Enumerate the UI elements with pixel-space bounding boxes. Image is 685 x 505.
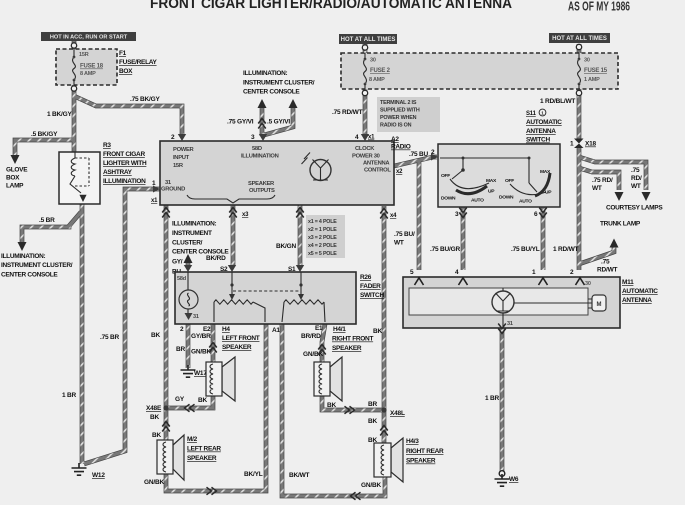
svg-text:.75 GY/VI: .75 GY/VI: [227, 119, 254, 126]
svg-text:OUTPUTS: OUTPUTS: [249, 188, 275, 194]
svg-text:58D: 58D: [252, 146, 262, 152]
svg-text:LEFT REAR: LEFT REAR: [187, 446, 221, 453]
svg-text:RD/: RD/: [631, 175, 642, 182]
svg-text:.75 RD/WT: .75 RD/WT: [332, 109, 363, 116]
svg-text:FUSE 18: FUSE 18: [80, 64, 104, 70]
svg-text:W6: W6: [509, 476, 519, 483]
svg-text:SPEAKER: SPEAKER: [187, 455, 217, 462]
svg-text:UP: UP: [545, 190, 552, 196]
svg-text:X48E: X48E: [146, 405, 162, 412]
svg-text:POWER 30: POWER 30: [352, 154, 380, 160]
svg-text:.75 BU/: .75 BU/: [394, 231, 415, 238]
svg-text:X18: X18: [585, 141, 597, 148]
svg-text:6: 6: [534, 211, 538, 218]
svg-text:BOX: BOX: [119, 68, 133, 75]
svg-text:1 BR: 1 BR: [62, 392, 77, 399]
svg-text:POWER WHEN: POWER WHEN: [380, 115, 417, 121]
svg-text:1 BK/GY: 1 BK/GY: [47, 111, 72, 118]
svg-text:BK/YL: BK/YL: [244, 471, 263, 478]
svg-text:CENTER CONSOLE: CENTER CONSOLE: [1, 272, 58, 279]
svg-text:LAMP: LAMP: [6, 183, 24, 190]
svg-text:1: 1: [152, 180, 156, 187]
svg-text:HOT AT ALL TIMES: HOT AT ALL TIMES: [552, 36, 607, 42]
svg-text:DOWN: DOWN: [499, 195, 514, 201]
svg-text:ASHTRAY: ASHTRAY: [103, 169, 133, 176]
svg-text:BK/RD: BK/RD: [206, 255, 226, 262]
svg-text:58d: 58d: [177, 276, 186, 282]
svg-text:.5 BK/GY: .5 BK/GY: [31, 131, 58, 138]
svg-text:30: 30: [585, 281, 591, 287]
svg-text:x3 = 2 POLE: x3 = 2 POLE: [308, 235, 337, 241]
svg-text:x2 = 1 POLE: x2 = 1 POLE: [308, 227, 337, 233]
svg-text:W17: W17: [194, 370, 207, 377]
svg-text:BK: BK: [368, 418, 377, 425]
svg-text:H4/3: H4/3: [406, 438, 419, 445]
svg-text:SPEAKER: SPEAKER: [222, 344, 252, 351]
svg-text:BK: BK: [198, 397, 207, 404]
svg-text:ILLUMINATION:: ILLUMINATION:: [172, 221, 216, 228]
svg-text:SPEAKER: SPEAKER: [332, 345, 362, 352]
svg-text:BR: BR: [176, 346, 185, 353]
svg-text:x1: x1: [151, 198, 158, 204]
svg-text:BK/GN: BK/GN: [276, 243, 296, 250]
svg-text:ANTENNA: ANTENNA: [526, 128, 556, 135]
svg-text:INSTRUMENT CLUSTER/: INSTRUMENT CLUSTER/: [243, 80, 315, 87]
svg-text:BR: BR: [368, 401, 377, 408]
svg-text:.5 GY/VI: .5 GY/VI: [267, 119, 290, 126]
svg-text:POWER: POWER: [173, 147, 195, 153]
svg-text:RADIO: RADIO: [391, 144, 411, 151]
svg-text:H4/1: H4/1: [333, 326, 346, 333]
svg-text:H4: H4: [222, 326, 230, 333]
svg-text:HOT AT ALL TIMES: HOT AT ALL TIMES: [341, 37, 396, 43]
svg-text:CLUSTER/: CLUSTER/: [172, 240, 203, 247]
svg-text:INPUT: INPUT: [173, 155, 190, 161]
svg-text:OFF: OFF: [505, 178, 514, 184]
svg-text:5: 5: [410, 269, 414, 276]
svg-text:.75 BR: .75 BR: [100, 334, 120, 341]
svg-text:ANTENNA: ANTENNA: [622, 297, 652, 304]
svg-text:GY/: GY/: [172, 259, 183, 266]
svg-text:31: 31: [507, 321, 513, 327]
svg-text:INSTRUMENT: INSTRUMENT: [172, 230, 212, 237]
svg-text:RIGHT REAR: RIGHT REAR: [406, 448, 444, 455]
svg-text:BK: BK: [373, 328, 382, 335]
svg-text:R3: R3: [103, 142, 111, 149]
svg-text:WT: WT: [592, 185, 602, 192]
svg-text:GLOVE: GLOVE: [6, 167, 28, 174]
svg-text:RADIO IS ON: RADIO IS ON: [380, 123, 412, 129]
svg-text:.5 BR: .5 BR: [39, 217, 55, 224]
svg-text:FUSE 2: FUSE 2: [370, 68, 391, 74]
svg-text:FADER: FADER: [360, 283, 381, 290]
svg-text:x4: x4: [390, 213, 397, 219]
svg-text:30: 30: [370, 58, 376, 64]
svg-text:3: 3: [251, 134, 255, 141]
svg-text:FUSE 15: FUSE 15: [584, 68, 608, 74]
svg-text:x5 = 5 POLE: x5 = 5 POLE: [308, 251, 337, 257]
svg-text:WT: WT: [394, 240, 404, 247]
svg-text:OFF: OFF: [441, 173, 450, 179]
svg-text:ILLUMINATION:: ILLUMINATION:: [243, 70, 287, 77]
svg-text:30: 30: [584, 58, 590, 64]
svg-text:X48L: X48L: [390, 410, 405, 417]
svg-text:4: 4: [455, 269, 459, 276]
svg-text:RD/WT: RD/WT: [597, 267, 618, 274]
svg-text:GY: GY: [175, 396, 185, 403]
svg-text:1 BR: 1 BR: [485, 395, 500, 402]
svg-text:TERMINAL 2 IS: TERMINAL 2 IS: [380, 100, 417, 106]
svg-text:31: 31: [193, 314, 199, 320]
svg-text:A2: A2: [391, 136, 399, 143]
svg-text:TRUNK LAMP: TRUNK LAMP: [600, 221, 641, 228]
svg-text:MAX: MAX: [486, 178, 497, 184]
svg-text:.75: .75: [601, 259, 610, 266]
svg-text:.75 BK/GY: .75 BK/GY: [130, 96, 160, 103]
svg-text:BK: BK: [368, 437, 377, 444]
svg-text:1: 1: [541, 111, 544, 116]
svg-text:SUPPLIED WITH: SUPPLIED WITH: [380, 108, 420, 114]
svg-text:1 RD/WT: 1 RD/WT: [553, 246, 579, 253]
svg-text:15R: 15R: [79, 52, 89, 58]
svg-text:GROUND: GROUND: [161, 187, 185, 193]
svg-text:BK: BK: [152, 432, 161, 439]
svg-text:2: 2: [180, 326, 184, 333]
svg-text:2: 2: [171, 134, 175, 141]
svg-text:W12: W12: [92, 472, 105, 479]
svg-text:x4 = 2 POLE: x4 = 2 POLE: [308, 243, 337, 249]
svg-text:LEFT FRONT: LEFT FRONT: [222, 335, 260, 342]
svg-text:1 AMP: 1 AMP: [584, 77, 600, 83]
svg-text:ILLUMINATION: ILLUMINATION: [103, 178, 146, 185]
svg-text:INSTRUMENT CLUSTER/: INSTRUMENT CLUSTER/: [1, 262, 73, 269]
svg-text:LIGHTER WITH: LIGHTER WITH: [103, 160, 147, 167]
svg-text:BOX: BOX: [6, 175, 20, 182]
svg-text:2: 2: [570, 269, 574, 276]
svg-text:E2: E2: [203, 326, 211, 333]
svg-text:ILLUMINATION:: ILLUMINATION:: [1, 253, 45, 260]
svg-text:ILLUMINATION: ILLUMINATION: [241, 154, 279, 160]
svg-text:1: 1: [570, 141, 574, 148]
svg-text:x1 = 4 POLE: x1 = 4 POLE: [308, 219, 337, 225]
svg-text:SWITCH: SWITCH: [526, 137, 550, 144]
svg-text:RIGHT FRONT: RIGHT FRONT: [332, 336, 373, 343]
svg-text:FRONT CIGAR: FRONT CIGAR: [103, 151, 145, 158]
svg-text:CENTER CONSOLE: CENTER CONSOLE: [243, 89, 300, 96]
svg-text:R26: R26: [360, 274, 372, 281]
svg-text:GY/BR: GY/BR: [191, 333, 211, 340]
svg-text:1 RD/BL/WT: 1 RD/BL/WT: [540, 98, 575, 105]
svg-text:BK: BK: [150, 414, 159, 421]
svg-text:FRONT CIGAR LIGHTER/RADIO/AUTO: FRONT CIGAR LIGHTER/RADIO/AUTOMATIC ANTE…: [150, 0, 512, 12]
svg-text:GN/BK: GN/BK: [361, 482, 381, 489]
svg-text:x1: x1: [368, 135, 375, 141]
svg-text:WT: WT: [631, 183, 641, 190]
svg-text:AS OF MY 1986: AS OF MY 1986: [568, 0, 630, 14]
svg-text:3: 3: [455, 211, 459, 218]
svg-text:AUTO: AUTO: [519, 199, 532, 205]
svg-text:UP: UP: [488, 189, 495, 195]
svg-text:CONTROL: CONTROL: [364, 168, 391, 174]
svg-text:.75 BU/GR: .75 BU/GR: [430, 246, 460, 253]
svg-text:S11: S11: [526, 111, 537, 117]
svg-text:AUTOMATIC: AUTOMATIC: [622, 288, 658, 295]
svg-text:HOT IN ACC, RUN OR START: HOT IN ACC, RUN OR START: [50, 35, 128, 41]
svg-text:.75 RD/: .75 RD/: [592, 177, 613, 184]
svg-text:SPEAKER: SPEAKER: [406, 458, 436, 465]
svg-text:GN/BK: GN/BK: [144, 479, 164, 486]
svg-text:A1: A1: [272, 327, 280, 334]
svg-text:CLOCK: CLOCK: [355, 146, 375, 152]
svg-text:F1: F1: [119, 50, 127, 57]
svg-text:8 AMP: 8 AMP: [80, 71, 96, 77]
svg-text:1: 1: [532, 269, 536, 276]
svg-text:SWITCH: SWITCH: [360, 292, 384, 299]
svg-text:.75: .75: [631, 167, 640, 174]
svg-text:AUTO: AUTO: [471, 198, 484, 204]
svg-text:BK: BK: [151, 332, 160, 339]
svg-text:AUTOMATIC: AUTOMATIC: [526, 119, 562, 126]
svg-text:GN/BK: GN/BK: [191, 349, 211, 356]
svg-text:M11: M11: [622, 279, 634, 286]
svg-text:BK/WT: BK/WT: [289, 472, 310, 479]
svg-text:M/2: M/2: [187, 436, 198, 443]
svg-text:BK: BK: [327, 402, 336, 409]
svg-text:8 AMP: 8 AMP: [369, 77, 385, 83]
svg-text:MAX: MAX: [540, 169, 551, 175]
svg-text:SPEAKER: SPEAKER: [248, 181, 275, 187]
svg-text:M: M: [597, 302, 602, 308]
svg-text:ANTENNA: ANTENNA: [363, 161, 390, 167]
svg-text:.75 BU/YL: .75 BU/YL: [511, 246, 540, 253]
svg-text:BR/RD: BR/RD: [301, 333, 321, 340]
svg-text:DOWN: DOWN: [441, 196, 456, 202]
svg-text:x3: x3: [242, 212, 249, 218]
svg-text:FUSE/RELAY: FUSE/RELAY: [119, 59, 158, 66]
svg-text:COURTESY LAMPS: COURTESY LAMPS: [606, 205, 663, 212]
svg-text:E1: E1: [315, 325, 323, 332]
svg-text:4: 4: [355, 134, 359, 141]
svg-text:15R: 15R: [173, 163, 184, 169]
svg-text:x2: x2: [396, 169, 403, 175]
svg-text:.75 BU: .75 BU: [409, 151, 429, 158]
